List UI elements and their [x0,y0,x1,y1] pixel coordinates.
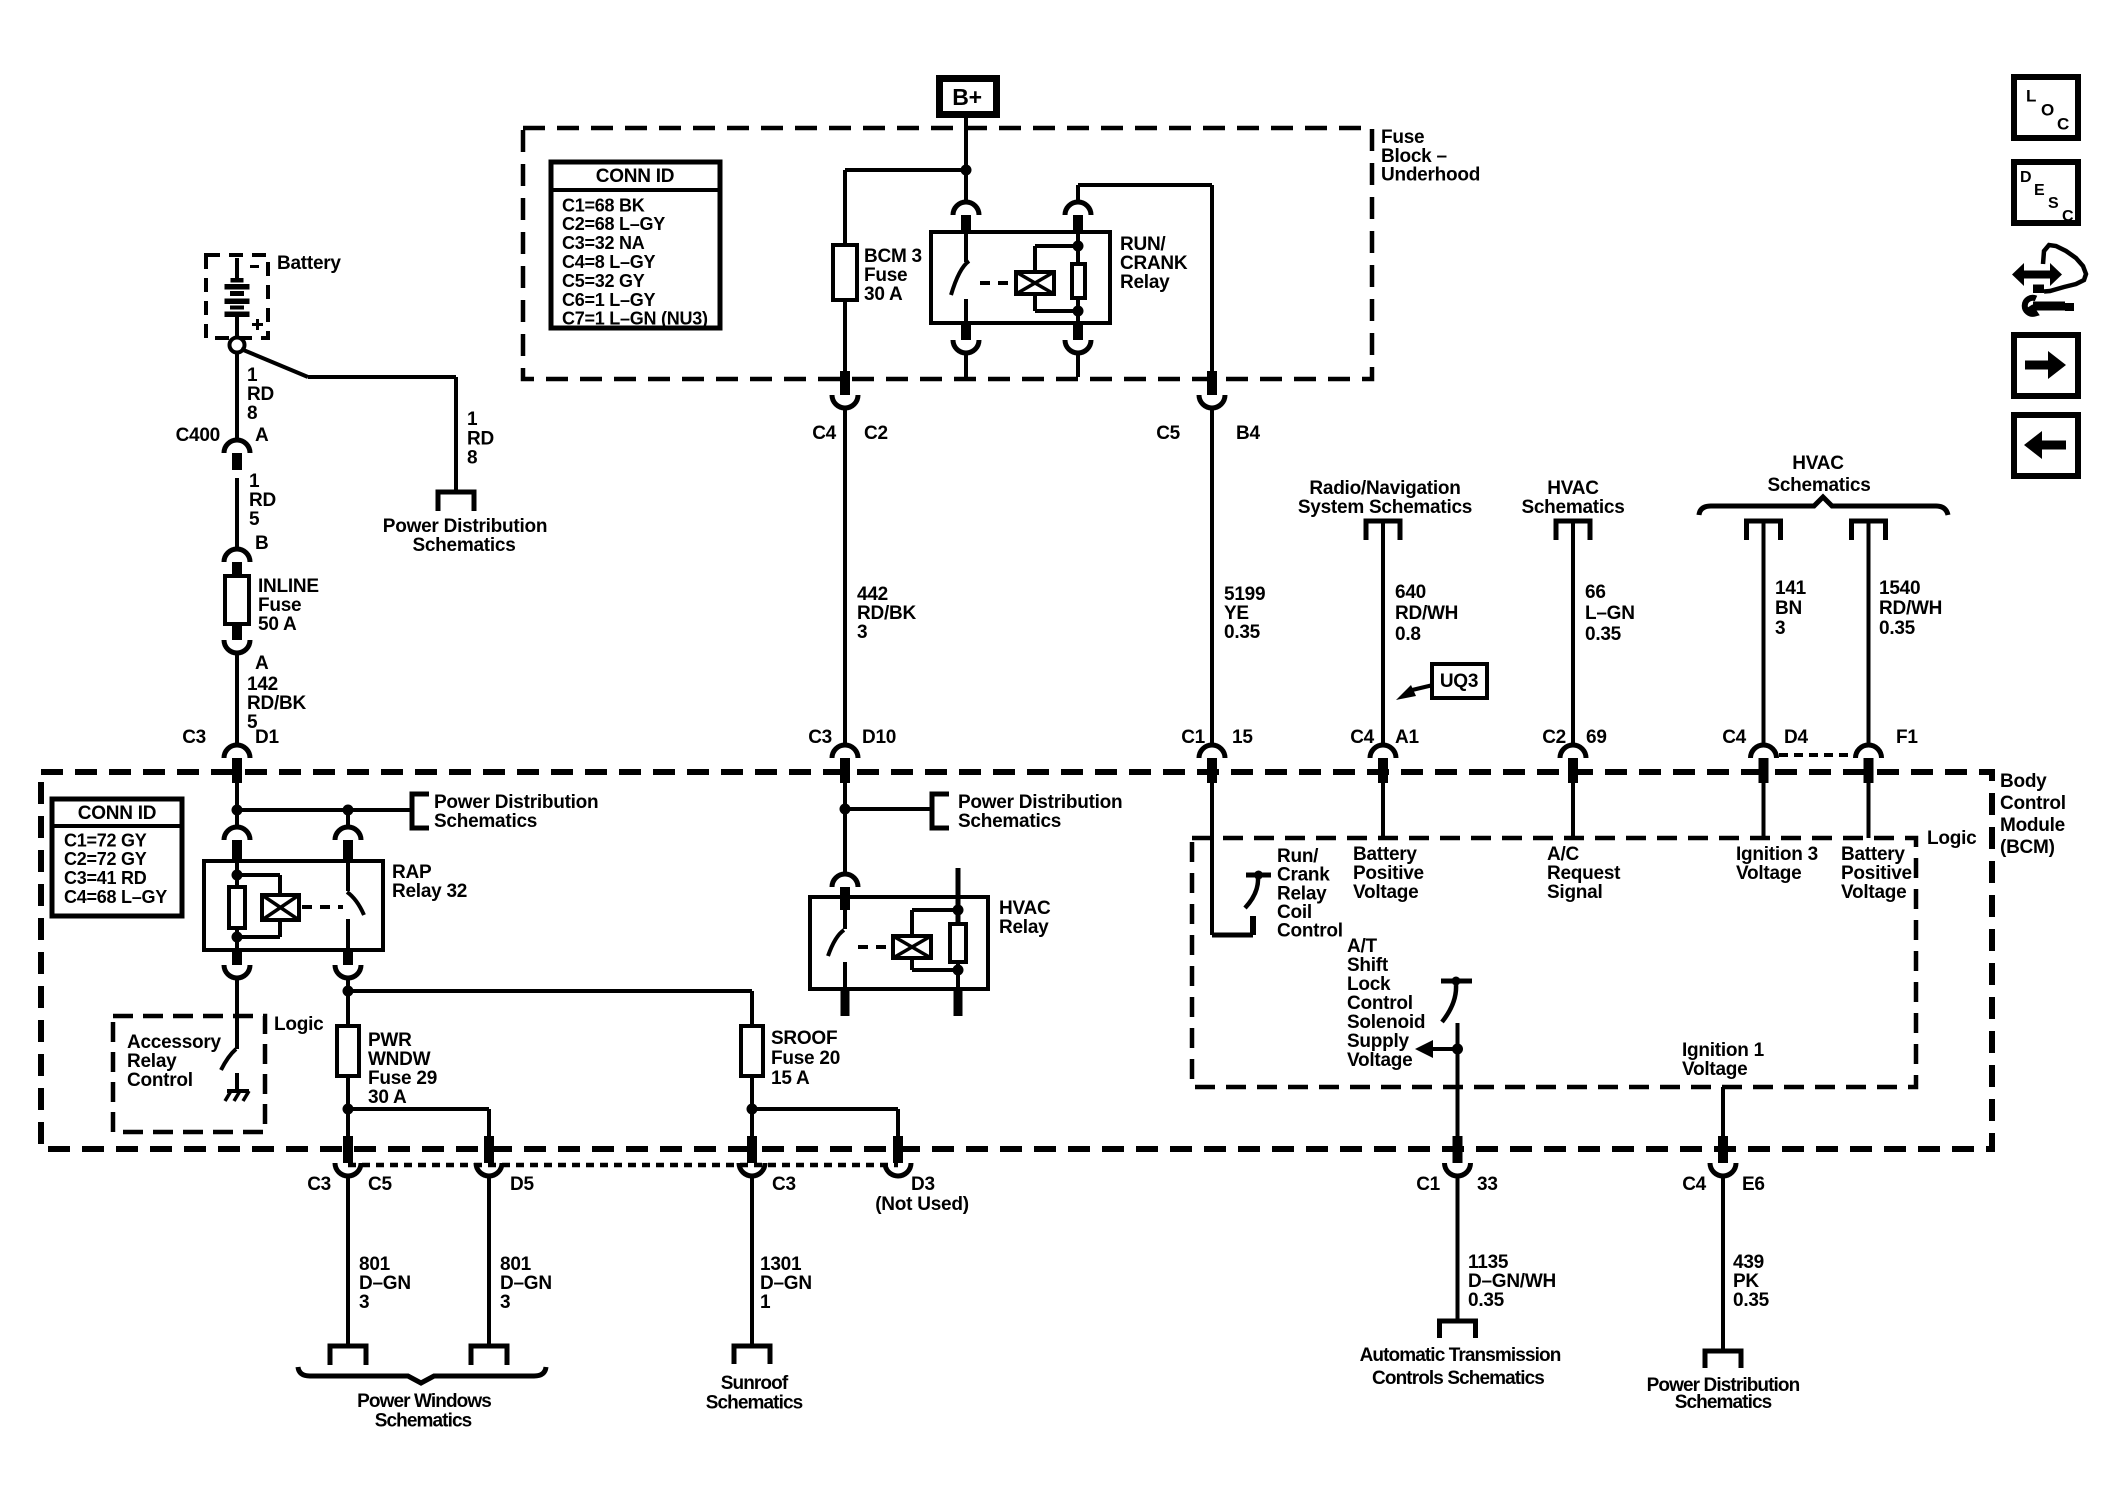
svg-text:Schematics: Schematics [706,1393,803,1414]
svg-text:33: 33 [1477,1174,1498,1195]
svg-text:5: 5 [249,509,260,530]
svg-text:B: B [255,533,268,554]
svg-text:L–GN: L–GN [1585,603,1635,624]
svg-text:C2: C2 [1542,727,1566,748]
svg-text:Control: Control [2000,793,2066,814]
svg-text:Ignition 3: Ignition 3 [1736,844,1818,865]
svg-text:Shift: Shift [1347,955,1389,976]
svg-text:D–GN/WH: D–GN/WH [1468,1271,1556,1292]
svg-text:66: 66 [1585,582,1606,603]
svg-text:INLINE: INLINE [258,576,319,597]
svg-text:Underhood: Underhood [1381,165,1480,186]
svg-text:C4: C4 [812,423,836,444]
svg-text:Relay: Relay [127,1051,177,1072]
svg-text:C2: C2 [864,423,888,444]
svg-text:Logic: Logic [1927,828,1977,849]
svg-text:RD/WH: RD/WH [1395,603,1458,624]
svg-text:Voltage: Voltage [1353,882,1418,903]
svg-text:8: 8 [467,448,477,469]
svg-text:8: 8 [247,403,257,424]
svg-text:C1: C1 [1416,1174,1440,1195]
svg-text:D–GN: D–GN [500,1273,552,1294]
svg-text:Battery: Battery [1841,844,1905,865]
svg-text:O: O [2041,101,2054,120]
svg-text:640: 640 [1395,582,1426,603]
svg-text:C1: C1 [1181,727,1205,748]
svg-text:RAP: RAP [392,862,432,883]
svg-text:3: 3 [857,622,867,643]
svg-text:Fuse 20: Fuse 20 [771,1048,840,1069]
svg-text:Fuse: Fuse [864,265,907,286]
svg-text:Power Distribution: Power Distribution [383,516,547,537]
svg-text:0.35: 0.35 [1224,622,1261,643]
svg-text:B+: B+ [952,84,982,110]
svg-text:D10: D10 [862,727,896,748]
svg-text:Body: Body [2000,771,2047,792]
svg-text:B4: B4 [1236,423,1260,444]
svg-text:RD: RD [247,384,274,405]
svg-text:C2=68 L–GY: C2=68 L–GY [562,214,665,234]
svg-text:0.35: 0.35 [1468,1290,1505,1311]
svg-text:801: 801 [359,1254,391,1275]
svg-text:Solenoid: Solenoid [1347,1012,1425,1033]
svg-text:5199: 5199 [1224,584,1265,605]
svg-text:C7=1 L–GN (NU3): C7=1 L–GN (NU3) [562,309,708,329]
svg-text:15 A: 15 A [771,1068,810,1089]
svg-text:C4=68 L–GY: C4=68 L–GY [64,887,167,907]
svg-text:(BCM): (BCM) [2000,837,2055,858]
svg-text:Voltage: Voltage [1841,882,1906,903]
svg-text:F1: F1 [1896,727,1918,748]
svg-text:0.35: 0.35 [1585,624,1622,645]
svg-text:1540: 1540 [1879,578,1920,599]
svg-text:D–GN: D–GN [359,1273,411,1294]
svg-text:Schematics: Schematics [1675,1392,1772,1413]
svg-text:RD/BK: RD/BK [857,603,916,624]
svg-text:Schematics: Schematics [1521,497,1624,518]
svg-text:YE: YE [1224,603,1249,624]
svg-text:30 A: 30 A [368,1087,407,1108]
svg-text:RD: RD [467,428,494,449]
svg-text:A/C: A/C [1547,844,1580,865]
svg-text:C6=1 L–GY: C6=1 L–GY [562,290,656,310]
svg-text:1: 1 [467,409,478,430]
svg-text:442: 442 [857,584,888,605]
svg-text:C400: C400 [176,425,220,446]
svg-text:HVAC: HVAC [1792,453,1844,474]
svg-text:Fuse 29: Fuse 29 [368,1068,437,1089]
svg-text:D–GN: D–GN [760,1273,812,1294]
svg-text:1301: 1301 [760,1254,802,1275]
svg-text:D1: D1 [255,727,279,748]
svg-text:Control: Control [1347,993,1413,1014]
svg-text:0.8: 0.8 [1395,624,1421,645]
svg-text:BCM 3: BCM 3 [864,246,922,267]
svg-text:Sunroof: Sunroof [721,1373,789,1394]
svg-text:Battery: Battery [277,253,341,274]
svg-text:Signal: Signal [1547,882,1603,903]
svg-text:C1=68 BK: C1=68 BK [562,195,645,215]
svg-text:D3: D3 [911,1174,935,1195]
svg-text:Power Distribution: Power Distribution [434,792,598,813]
svg-text:D4: D4 [1784,727,1808,748]
svg-text:Control: Control [127,1070,193,1091]
svg-text:UQ3: UQ3 [1440,671,1478,692]
svg-text:RD/WH: RD/WH [1879,598,1942,619]
svg-text:1: 1 [760,1292,771,1313]
svg-text:C1=72 GY: C1=72 GY [64,830,147,850]
svg-text:Logic: Logic [274,1014,324,1035]
svg-text:A1: A1 [1395,727,1419,748]
svg-text:C3: C3 [307,1174,331,1195]
svg-text:A: A [255,653,269,674]
svg-text:Positive: Positive [1841,863,1912,884]
svg-text:(Not Used): (Not Used) [875,1194,969,1215]
svg-text:CRANK: CRANK [1120,253,1188,274]
svg-text:SROOF: SROOF [771,1028,837,1049]
svg-text:Request: Request [1547,863,1621,884]
svg-text:Positive: Positive [1353,863,1424,884]
svg-text:0.35: 0.35 [1879,618,1916,639]
svg-text:C: C [2062,208,2074,225]
svg-text:1: 1 [249,471,260,492]
svg-text:1: 1 [247,365,258,386]
svg-text:C4=8 L–GY: C4=8 L–GY [562,252,656,272]
svg-text:C4: C4 [1722,727,1746,748]
svg-text:50 A: 50 A [258,614,297,635]
svg-text:439: 439 [1733,1252,1764,1273]
svg-text:RD/BK: RD/BK [247,693,306,714]
svg-text:E6: E6 [1742,1174,1765,1195]
svg-text:Control: Control [1277,921,1343,942]
svg-text:L: L [2026,87,2036,106]
svg-text:0.35: 0.35 [1733,1290,1770,1311]
svg-text:D: D [2020,169,2031,186]
svg-text:CONN ID: CONN ID [78,803,156,824]
svg-text:Voltage: Voltage [1736,863,1801,884]
svg-text:A/T: A/T [1347,936,1378,957]
svg-text:RD: RD [249,490,276,511]
svg-text:WNDW: WNDW [368,1049,431,1070]
svg-text:C3: C3 [808,727,832,748]
svg-text:C4: C4 [1350,727,1374,748]
svg-text:S: S [2048,195,2059,212]
svg-text:C5=32 GY: C5=32 GY [562,271,645,291]
svg-text:Radio/Navigation: Radio/Navigation [1309,478,1460,499]
svg-text:69: 69 [1586,727,1607,748]
svg-text:CONN ID: CONN ID [596,166,674,187]
svg-text:C3: C3 [772,1174,796,1195]
svg-text:Accessory: Accessory [127,1032,222,1053]
svg-text:C3: C3 [182,727,206,748]
svg-text:3: 3 [500,1292,510,1313]
svg-text:HVAC: HVAC [1547,478,1599,499]
svg-text:E: E [2034,182,2045,199]
svg-text:141: 141 [1775,578,1807,599]
svg-text:Lock: Lock [1347,974,1391,995]
svg-text:Relay: Relay [999,917,1049,938]
svg-text:Automatic Transmission: Automatic Transmission [1360,1345,1561,1366]
svg-text:PK: PK [1733,1271,1759,1292]
svg-text:Relay 32: Relay 32 [392,881,467,902]
svg-text:142: 142 [247,674,278,695]
svg-text:C3=32 NA: C3=32 NA [562,233,645,253]
svg-text:Fuse: Fuse [258,595,301,616]
svg-text:Power Windows: Power Windows [357,1391,491,1412]
svg-text:Schematics: Schematics [1767,475,1870,496]
svg-text:801: 801 [500,1254,532,1275]
svg-text:1135: 1135 [1468,1252,1509,1273]
svg-text:Voltage: Voltage [1347,1050,1412,1071]
svg-text:HVAC: HVAC [999,898,1051,919]
svg-text:C4: C4 [1682,1174,1706,1195]
svg-text:Schematics: Schematics [375,1411,472,1432]
svg-text:Relay: Relay [1120,272,1170,293]
svg-text:RUN/: RUN/ [1120,234,1166,255]
svg-text:Schematics: Schematics [434,811,537,832]
svg-text:3: 3 [359,1292,369,1313]
svg-text:Schematics: Schematics [412,535,515,556]
svg-text:C5: C5 [1156,423,1180,444]
svg-text:C3=41 RD: C3=41 RD [64,868,147,888]
svg-text:Battery: Battery [1353,844,1417,865]
svg-text:BN: BN [1775,598,1802,619]
svg-text:Voltage: Voltage [1682,1059,1747,1080]
svg-text:15: 15 [1232,727,1253,748]
svg-text:Controls Schematics: Controls Schematics [1372,1368,1544,1389]
svg-text:Schematics: Schematics [958,811,1061,832]
svg-text:Ignition 1: Ignition 1 [1682,1040,1765,1061]
svg-text:3: 3 [1775,618,1785,639]
svg-text:C5: C5 [368,1174,392,1195]
svg-text:Supply: Supply [1347,1031,1410,1052]
svg-text:D5: D5 [510,1174,534,1195]
svg-text:C2=72 GY: C2=72 GY [64,849,147,869]
svg-text:System Schematics: System Schematics [1298,497,1472,518]
svg-text:Power Distribution: Power Distribution [958,792,1122,813]
svg-text:C: C [2057,115,2069,134]
svg-text:PWR: PWR [368,1030,412,1051]
svg-text:A: A [255,425,269,446]
svg-text:Module: Module [2000,815,2065,836]
svg-text:30 A: 30 A [864,284,903,305]
